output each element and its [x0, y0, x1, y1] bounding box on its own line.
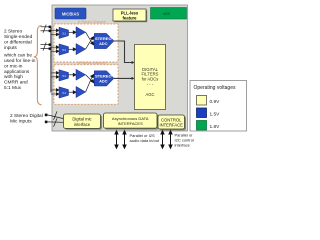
ch1 amp A: [76, 27, 86, 38]
svg-text:MICBIAS: MICBIAS: [62, 12, 80, 17]
ch1 amp B: [76, 44, 86, 55]
digital mic interface block: [64, 114, 103, 130]
ch1 stereo ADC: [94, 33, 114, 48]
svg-text:5:1: 5:1: [62, 31, 66, 35]
bus-to-mux wires ch1: [51, 29, 59, 53]
chip body: [52, 5, 188, 131]
svg-text:1.8V: 1.8V: [210, 124, 221, 130]
svg-text:INTERFACES: INTERFACES: [118, 121, 143, 126]
svg-text:INTERFACE: INTERFACE: [159, 123, 183, 128]
svg-text:applications: applications: [4, 69, 30, 75]
legend 1.5V swatch: [197, 108, 207, 118]
ch2 dashed box: [54, 65, 118, 104]
ch1 dashed box: [54, 24, 118, 62]
analog input pair 2: [41, 42, 52, 50]
asynchronous data interfaces block: [104, 113, 159, 130]
svg-text:5:1: 5:1: [62, 74, 66, 78]
ch1 mux-to-amp wires: [69, 31, 77, 51]
svg-text:for ADCs: for ADCs: [142, 76, 159, 81]
svg-text:xCK: xCK: [163, 12, 171, 16]
svg-text:5:1: 5:1: [62, 91, 66, 95]
ch1 cross wires: [86, 32, 95, 49]
svg-text:inputs: inputs: [4, 45, 17, 51]
legend box: [190, 81, 247, 132]
legend 1.8V swatch: [197, 121, 207, 131]
svg-text:CMRR and: CMRR and: [4, 80, 28, 86]
digital filters block: [135, 45, 166, 110]
ch2 ADC output wire: [114, 77, 132, 79]
analog input pair 1: [41, 25, 52, 33]
ch2 mux B: [59, 87, 69, 98]
svg-text:feature: feature: [123, 16, 138, 21]
svg-text:ADC: ADC: [99, 79, 108, 84]
svg-text:Operating voltages: Operating voltages: [194, 85, 236, 91]
bus-to-mux wires ch2: [51, 71, 59, 95]
MICBIAS block: [55, 8, 86, 19]
ch2 cross wires: [86, 74, 95, 92]
PLL-less feature callout: [113, 9, 147, 22]
svg-text:- - -: - - -: [147, 82, 154, 87]
svg-text:interface: interface: [175, 142, 191, 147]
svg-text:A Stereo Channel: A Stereo Channel: [78, 20, 106, 24]
svg-text:ADC: ADC: [99, 41, 108, 46]
svg-text:Mic inputs: Mic inputs: [10, 119, 32, 125]
control interface block: [158, 115, 186, 130]
ch1 mux B: [59, 44, 69, 55]
ch1 ADC output wire: [114, 41, 132, 63]
svg-text:Asynchronous DATA: Asynchronous DATA: [112, 116, 149, 121]
svg-text:5:1: 5:1: [62, 48, 66, 52]
svg-text:Single-ended: Single-ended: [4, 34, 33, 40]
clock block: [151, 8, 187, 20]
ch2 mux A: [59, 70, 69, 81]
ch2 amp B: [76, 86, 86, 97]
svg-text:2 Stereo Digital: 2 Stereo Digital: [10, 113, 43, 119]
digital mic input wires: [45, 114, 48, 117]
ch2 mux-to-amp wires: [69, 73, 77, 93]
ch2 stereo ADC: [94, 71, 114, 86]
svg-text:5:1 Mux: 5:1 Mux: [4, 85, 22, 91]
svg-text:or mic-in: or mic-in: [4, 63, 23, 69]
svg-text:audio data in/out: audio data in/out: [130, 138, 160, 143]
svg-text:or differential: or differential: [4, 39, 32, 45]
audio data io arrows: [115, 131, 126, 148]
legend 0.9V swatch: [197, 96, 207, 106]
svg-text:A Stereo Channel: A Stereo Channel: [78, 61, 106, 65]
svg-text:0.9V: 0.9V: [210, 99, 221, 105]
svg-text:interface: interface: [74, 122, 91, 127]
input bus: [50, 27, 52, 93]
svg-text:used for line-in: used for line-in: [4, 58, 36, 64]
ch1 mux A: [59, 27, 69, 38]
svg-text:2 Stereo: 2 Stereo: [4, 29, 22, 35]
brace: [34, 26, 42, 105]
svg-text:which can be: which can be: [4, 53, 32, 59]
svg-text:AGC: AGC: [145, 92, 154, 97]
ch2 amp A: [76, 69, 86, 80]
control io arrows: [161, 131, 172, 148]
svg-text:with high: with high: [4, 74, 23, 80]
svg-text:1.5V: 1.5V: [210, 112, 221, 118]
input description text: [4, 29, 36, 91]
